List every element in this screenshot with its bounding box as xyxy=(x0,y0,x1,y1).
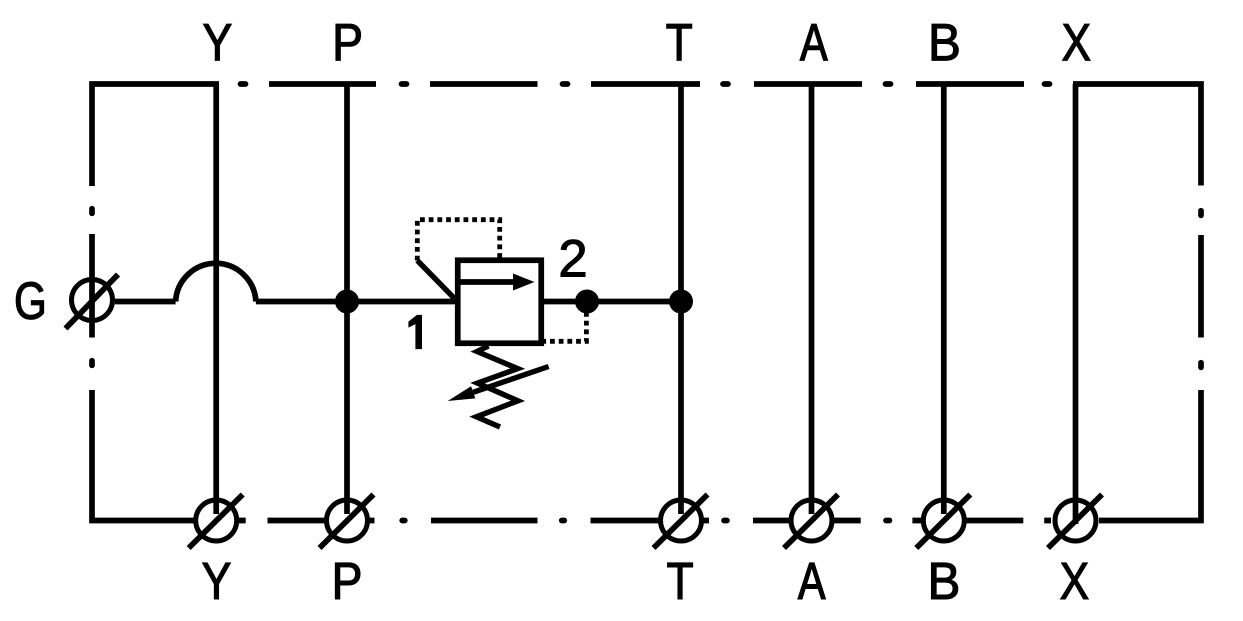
port label T top xyxy=(667,24,692,60)
manifold boundary right chain dot 2 xyxy=(1198,363,1204,368)
port line T vertical xyxy=(678,84,684,514)
relief valve drain dashed line xyxy=(544,312,586,341)
junction dot valve outlet node xyxy=(575,290,599,314)
port symbol Y bottom circle xyxy=(196,500,237,541)
valve port label 1 xyxy=(408,315,422,349)
port label T bottom xyxy=(668,563,693,599)
port symbol X bottom slash xyxy=(1048,495,1102,549)
port symbol B bottom circle xyxy=(923,500,964,541)
relief valve adjustment arrow shaft xyxy=(473,367,548,393)
wire hump to valve inlet xyxy=(256,299,455,305)
port line Y vertical xyxy=(213,84,219,514)
port line P vertical xyxy=(344,84,350,514)
port label A top xyxy=(800,24,828,60)
manifold boundary left chain dot 2 xyxy=(89,361,95,366)
relief valve pilot dashed line xyxy=(417,220,499,261)
wire valve outlet to T line xyxy=(544,299,681,305)
port symbol B bottom slash xyxy=(916,495,970,549)
port label B top xyxy=(932,24,958,60)
gauge port G circle xyxy=(72,280,113,321)
junction dot P node xyxy=(335,290,359,314)
port symbol P bottom circle xyxy=(327,500,368,541)
port line B vertical xyxy=(941,84,947,514)
port symbol T bottom slash xyxy=(654,495,708,549)
port symbol A bottom slash xyxy=(784,495,838,549)
manifold boundary bottom-left corner xyxy=(92,390,196,521)
manifold boundary left solid segment xyxy=(89,234,95,338)
manifold boundary top-right corner xyxy=(1073,84,1201,186)
valve port label 2 xyxy=(561,240,585,277)
relief valve spring xyxy=(476,346,518,427)
port label Y top xyxy=(204,24,232,60)
relief valve adjustment arrowhead xyxy=(448,386,476,401)
wire crossover hump over Y line xyxy=(176,263,256,301)
wire G to hump xyxy=(115,299,176,305)
manifold boundary bottom-right corner xyxy=(1099,390,1201,521)
port label B bottom xyxy=(932,563,958,599)
manifold boundary top chain dots xyxy=(241,81,1050,87)
manifold boundary right dash segment xyxy=(1198,235,1204,338)
port symbol P bottom slash xyxy=(320,495,374,549)
relief valve flow path line xyxy=(460,279,516,285)
port label A bottom xyxy=(798,563,826,599)
relief valve pilot diagonal xyxy=(417,261,454,299)
port symbol A bottom circle xyxy=(791,500,832,541)
manifold boundary bottom chain dashes xyxy=(237,518,1051,524)
port label P bottom xyxy=(335,563,360,599)
port label X bottom xyxy=(1061,563,1089,599)
junction dot T node xyxy=(669,290,693,314)
manifold boundary right chain dot xyxy=(1198,211,1204,216)
port label G xyxy=(16,282,43,319)
port line A vertical xyxy=(809,84,815,514)
relief valve V1 body xyxy=(458,260,542,343)
relief valve flow path arrowhead xyxy=(513,274,535,291)
manifold boundary top chain dashes xyxy=(269,81,1024,87)
port line X vertical xyxy=(1073,84,1079,524)
port symbol X bottom circle xyxy=(1055,500,1096,541)
port label X top xyxy=(1063,24,1091,60)
port symbol Y bottom slash xyxy=(189,495,243,549)
manifold boundary bottom chain dots xyxy=(402,518,889,524)
port label Y bottom xyxy=(203,563,231,599)
port symbol T bottom circle xyxy=(661,500,702,541)
manifold boundary left chain dot xyxy=(89,209,95,214)
port label P top xyxy=(336,24,361,60)
gauge port G slash xyxy=(66,275,119,329)
manifold boundary top-left corner xyxy=(92,84,219,186)
